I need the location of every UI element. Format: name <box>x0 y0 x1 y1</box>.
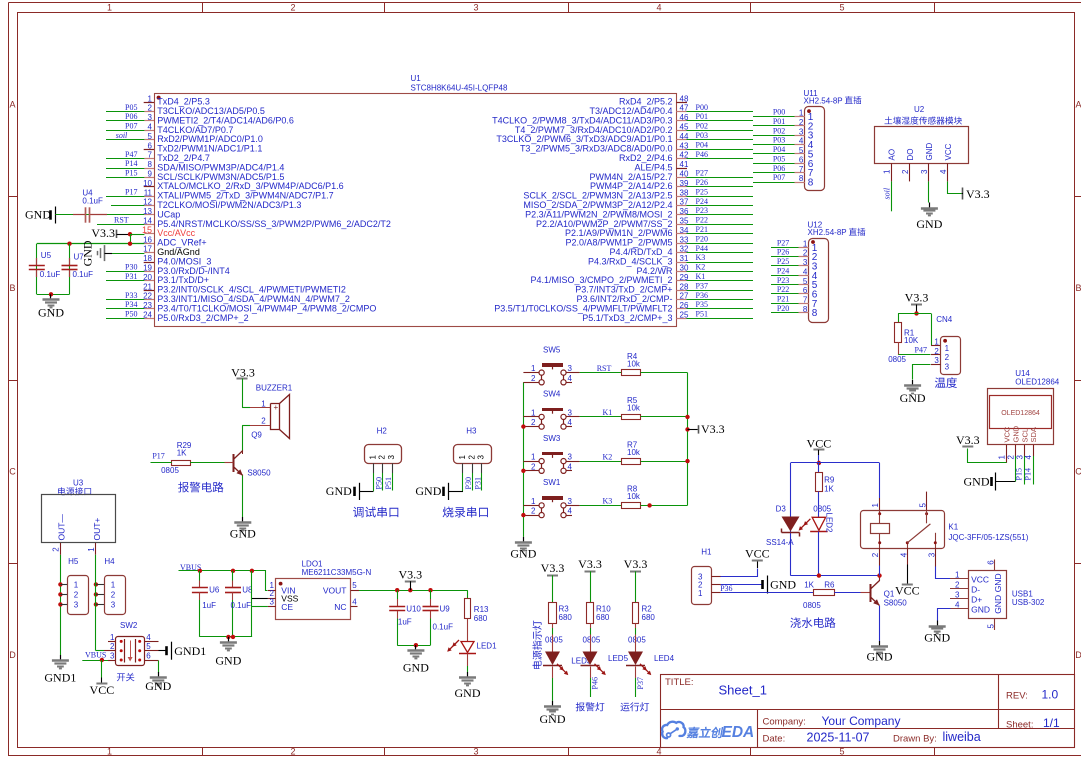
svg-text:GND: GND <box>900 391 926 405</box>
svg-text:9: 9 <box>148 170 153 179</box>
svg-text:4: 4 <box>568 374 573 383</box>
svg-text:23: 23 <box>143 301 152 310</box>
svg-text:2: 2 <box>871 552 880 557</box>
svg-text:8: 8 <box>799 174 804 183</box>
svg-text:V3.3: V3.3 <box>398 567 422 581</box>
svg-text:P50: P50 <box>125 310 137 319</box>
svg-text:GND: GND <box>510 547 536 561</box>
svg-text:OUT+: OUT+ <box>92 518 102 541</box>
svg-text:1K: 1K <box>177 449 187 458</box>
svg-text:P15: P15 <box>1015 468 1024 480</box>
svg-text:soil: soil <box>883 187 892 199</box>
svg-text:P47: P47 <box>125 150 137 159</box>
svg-text:P24: P24 <box>696 197 708 206</box>
svg-text:A: A <box>1075 100 1081 110</box>
svg-text:2: 2 <box>148 104 153 113</box>
svg-text:4: 4 <box>568 507 573 516</box>
svg-text:3: 3 <box>568 453 573 462</box>
svg-text:1: 1 <box>111 580 116 589</box>
svg-text:0805: 0805 <box>583 635 601 644</box>
svg-text:P46: P46 <box>696 150 708 159</box>
svg-text:1uF: 1uF <box>202 601 216 610</box>
svg-text:P03: P03 <box>696 131 708 140</box>
svg-text:2: 2 <box>945 353 950 362</box>
svg-text:41: 41 <box>680 160 689 169</box>
svg-text:P31: P31 <box>125 272 137 281</box>
svg-text:680: 680 <box>559 613 573 622</box>
svg-text:3: 3 <box>934 356 939 365</box>
svg-text:D+: D+ <box>971 594 982 604</box>
svg-text:2: 2 <box>290 3 295 13</box>
svg-text:5: 5 <box>987 624 996 629</box>
svg-text:GND: GND <box>993 595 1003 614</box>
svg-text:GND: GND <box>916 217 942 231</box>
svg-text:0.1uF: 0.1uF <box>231 601 252 610</box>
svg-text:0805: 0805 <box>545 635 563 644</box>
svg-text:P33: P33 <box>125 291 137 300</box>
svg-text:P15: P15 <box>125 169 137 178</box>
svg-text:U5: U5 <box>41 251 52 260</box>
svg-text:V3.3: V3.3 <box>966 187 990 201</box>
svg-text:GND: GND <box>25 207 51 221</box>
svg-text:OLED12864: OLED12864 <box>1001 410 1040 417</box>
svg-text:K3: K3 <box>603 497 613 506</box>
svg-text:H2: H2 <box>377 427 388 436</box>
svg-text:K2: K2 <box>696 263 706 272</box>
svg-text:1: 1 <box>883 169 892 174</box>
svg-text:1: 1 <box>368 455 377 460</box>
svg-text:STC8H8K64U-45I-LQFP48: STC8H8K64U-45I-LQFP48 <box>411 84 508 93</box>
svg-text:6: 6 <box>987 560 996 565</box>
svg-text:P36: P36 <box>696 291 708 300</box>
svg-text:P06: P06 <box>125 112 137 121</box>
svg-text:3: 3 <box>568 408 573 417</box>
svg-text:GND: GND <box>38 305 64 319</box>
svg-text:JQC-3FF/05-1ZS(551): JQC-3FF/05-1ZS(551) <box>948 533 1028 542</box>
svg-text:P06: P06 <box>773 164 785 173</box>
svg-text:2: 2 <box>1006 455 1015 460</box>
svg-text:P02: P02 <box>773 126 785 135</box>
svg-text:REV:: REV: <box>1006 690 1028 701</box>
svg-text:P02: P02 <box>696 122 708 131</box>
svg-text:P30: P30 <box>125 263 137 272</box>
svg-text:1: 1 <box>458 455 467 460</box>
svg-text:2: 2 <box>531 374 536 383</box>
svg-text:K2: K2 <box>603 452 613 461</box>
svg-text:3: 3 <box>270 597 275 606</box>
svg-text:22: 22 <box>143 292 152 301</box>
svg-text:2: 2 <box>531 418 536 427</box>
svg-text:RST: RST <box>597 364 612 373</box>
svg-text:3: 3 <box>920 169 929 174</box>
svg-text:V3.3: V3.3 <box>956 433 980 447</box>
svg-text:U2: U2 <box>914 105 925 114</box>
svg-text:10k: 10k <box>627 404 641 413</box>
svg-text:21: 21 <box>143 282 152 291</box>
svg-text:SW5: SW5 <box>543 345 561 354</box>
svg-text:3: 3 <box>568 364 573 373</box>
svg-text:P37: P37 <box>696 281 708 290</box>
svg-text:GND: GND <box>770 578 796 592</box>
svg-text:1uF: 1uF <box>398 618 412 627</box>
svg-text:2: 2 <box>51 547 60 552</box>
svg-text:3: 3 <box>148 113 153 122</box>
svg-text:P23: P23 <box>777 276 789 285</box>
svg-text:GND: GND <box>924 631 950 645</box>
svg-text:10: 10 <box>143 179 152 188</box>
svg-text:BUZZER1: BUZZER1 <box>256 384 293 393</box>
svg-text:2: 2 <box>110 642 115 651</box>
svg-text:K1: K1 <box>948 523 958 532</box>
svg-text:6: 6 <box>148 141 153 150</box>
svg-text:P35: P35 <box>696 300 708 309</box>
svg-text:P21: P21 <box>696 225 708 234</box>
svg-text:5: 5 <box>839 3 844 13</box>
svg-text:U1: U1 <box>411 74 422 83</box>
svg-text:3: 3 <box>945 362 950 371</box>
svg-text:OUT—: OUT— <box>56 514 66 541</box>
svg-text:VOUT: VOUT <box>323 585 347 595</box>
svg-text:P50: P50 <box>375 477 384 489</box>
svg-text:16: 16 <box>143 235 152 244</box>
svg-text:19: 19 <box>143 264 152 273</box>
svg-text:8: 8 <box>812 308 818 319</box>
svg-text:1: 1 <box>107 3 112 13</box>
svg-text:VCC: VCC <box>895 584 920 598</box>
svg-text:P5.0/RxD3_2/CMP+_2: P5.0/RxD3_2/CMP+_2 <box>157 313 248 323</box>
svg-text:P5.1/TxD3_2/CMP+_3: P5.1/TxD3_2/CMP+_3 <box>582 313 672 323</box>
svg-text:GND: GND <box>145 679 171 693</box>
svg-text:R9: R9 <box>824 475 835 484</box>
svg-text:Date:: Date: <box>763 733 786 744</box>
svg-text:680: 680 <box>642 613 656 622</box>
svg-text:DO: DO <box>906 149 915 161</box>
svg-text:31: 31 <box>680 254 689 263</box>
svg-text:R6: R6 <box>824 581 835 590</box>
svg-text:GND: GND <box>867 650 893 664</box>
svg-text:1: 1 <box>871 503 880 508</box>
svg-text:11: 11 <box>144 188 153 197</box>
svg-text:P00: P00 <box>696 103 708 112</box>
svg-text:10K: 10K <box>904 336 919 345</box>
svg-text:0805: 0805 <box>628 635 646 644</box>
svg-text:4: 4 <box>568 462 573 471</box>
svg-text:P36: P36 <box>720 584 732 593</box>
svg-text:S8050: S8050 <box>884 598 908 607</box>
svg-text:8: 8 <box>808 178 814 189</box>
svg-text:VCC: VCC <box>745 547 770 561</box>
svg-text:S8050: S8050 <box>247 468 271 477</box>
svg-text:Drawn By:: Drawn By: <box>893 733 937 744</box>
svg-text:+: + <box>273 403 278 412</box>
svg-text:5: 5 <box>919 503 928 508</box>
svg-text:B: B <box>1075 283 1081 293</box>
svg-text:P17: P17 <box>152 452 164 461</box>
svg-text:0805: 0805 <box>803 601 821 610</box>
svg-text:0.1uF: 0.1uF <box>73 270 94 279</box>
svg-text:2: 2 <box>467 455 476 460</box>
svg-text:0.1uF: 0.1uF <box>40 270 61 279</box>
svg-text:RST: RST <box>114 216 129 225</box>
svg-text:USB1: USB1 <box>1012 589 1033 598</box>
svg-text:GND1: GND1 <box>174 644 206 658</box>
svg-text:8: 8 <box>148 160 153 169</box>
svg-text:Company:: Company: <box>763 716 806 727</box>
svg-text:K1: K1 <box>603 408 613 417</box>
svg-text:GND: GND <box>925 143 934 161</box>
svg-text:1K: 1K <box>804 581 814 590</box>
svg-text:soil: soil <box>116 131 128 140</box>
svg-text:3: 3 <box>74 600 79 609</box>
svg-text:13: 13 <box>143 207 152 216</box>
svg-text:P20: P20 <box>696 234 708 243</box>
svg-text:1: 1 <box>531 364 536 373</box>
svg-text:P26: P26 <box>777 248 789 257</box>
svg-text:D-: D- <box>971 584 980 594</box>
svg-text:5: 5 <box>146 642 151 651</box>
svg-text:28: 28 <box>680 282 689 291</box>
svg-text:2: 2 <box>901 169 910 174</box>
svg-text:D: D <box>1075 650 1081 660</box>
svg-text:4: 4 <box>352 597 357 606</box>
svg-text:D: D <box>9 650 16 660</box>
svg-text:4: 4 <box>939 169 948 174</box>
svg-text:15: 15 <box>142 225 152 235</box>
svg-text:1: 1 <box>945 344 950 353</box>
svg-text:VCC: VCC <box>971 574 989 584</box>
svg-text:12: 12 <box>143 198 152 207</box>
svg-text:4: 4 <box>568 418 573 427</box>
svg-text:SW2: SW2 <box>120 621 138 630</box>
svg-text:0.1uF: 0.1uF <box>82 196 103 205</box>
svg-text:1K: 1K <box>824 485 834 494</box>
svg-text:SW4: SW4 <box>543 390 561 399</box>
svg-text:1: 1 <box>74 580 79 589</box>
svg-text:VCC: VCC <box>90 683 115 697</box>
svg-text:ME6211C33M5G-N: ME6211C33M5G-N <box>302 568 372 577</box>
svg-text:liweiba: liweiba <box>943 730 981 744</box>
svg-text:NC: NC <box>334 602 346 612</box>
svg-text:17: 17 <box>143 245 152 254</box>
svg-text:GND: GND <box>215 654 241 668</box>
svg-text:4: 4 <box>148 123 153 132</box>
svg-text:1: 1 <box>107 747 112 757</box>
svg-text:P14: P14 <box>1024 468 1033 480</box>
svg-text:P34: P34 <box>125 300 137 309</box>
svg-text:LED5: LED5 <box>608 654 629 663</box>
svg-text:K3: K3 <box>696 253 706 262</box>
svg-text:1: 1 <box>531 408 536 417</box>
svg-text:SS14-A: SS14-A <box>766 538 794 547</box>
svg-text:SW3: SW3 <box>543 434 561 443</box>
svg-text:P23: P23 <box>696 206 708 215</box>
svg-text:1: 1 <box>87 547 96 552</box>
svg-text:2: 2 <box>531 462 536 471</box>
svg-text:H3: H3 <box>466 427 477 436</box>
svg-text:U3: U3 <box>73 479 84 488</box>
svg-text:SW1: SW1 <box>543 478 561 487</box>
svg-text:GND: GND <box>971 604 990 614</box>
svg-text:4: 4 <box>955 601 960 610</box>
svg-text:1/1: 1/1 <box>1043 716 1060 730</box>
svg-text:1: 1 <box>148 94 153 103</box>
svg-text:U7: U7 <box>74 253 85 262</box>
svg-text:4: 4 <box>1024 455 1033 460</box>
svg-text:GND: GND <box>403 660 429 674</box>
svg-text:P05: P05 <box>125 103 137 112</box>
svg-text:GND: GND <box>455 686 481 700</box>
svg-text:0805: 0805 <box>161 466 179 475</box>
svg-text:680: 680 <box>596 613 610 622</box>
svg-text:R13: R13 <box>474 605 489 614</box>
svg-text:Q1: Q1 <box>884 590 895 599</box>
svg-text:10k: 10k <box>627 359 641 368</box>
svg-text:Sheet_1: Sheet_1 <box>719 683 767 698</box>
svg-text:U9: U9 <box>440 605 451 614</box>
svg-text:H4: H4 <box>104 557 115 566</box>
svg-text:P22: P22 <box>696 216 708 225</box>
svg-text:P51: P51 <box>384 477 393 489</box>
svg-text:P27: P27 <box>696 169 708 178</box>
svg-text:20: 20 <box>143 273 152 282</box>
svg-text:3: 3 <box>387 455 396 460</box>
svg-text:V3.3: V3.3 <box>905 291 929 305</box>
svg-text:V3.3: V3.3 <box>624 557 648 571</box>
svg-text:4: 4 <box>656 3 661 13</box>
svg-text:10k: 10k <box>627 492 641 501</box>
svg-text:3: 3 <box>568 497 573 506</box>
svg-text:5: 5 <box>148 132 153 141</box>
svg-text:CN4: CN4 <box>936 315 953 324</box>
svg-text:P05: P05 <box>773 154 785 163</box>
svg-text:P44: P44 <box>696 244 708 253</box>
svg-text:GND: GND <box>964 475 990 489</box>
svg-text:A: A <box>9 100 15 110</box>
svg-text:XH2.54-8P: XH2.54-8P <box>808 228 847 237</box>
svg-text:V3.3: V3.3 <box>91 226 115 240</box>
svg-text:LED1: LED1 <box>477 641 498 650</box>
svg-text:2: 2 <box>111 590 116 599</box>
svg-text:EDA: EDA <box>722 724 755 741</box>
svg-text:3: 3 <box>111 600 116 609</box>
svg-text:VCC: VCC <box>807 436 832 450</box>
svg-text:3: 3 <box>955 591 960 600</box>
svg-text:P04: P04 <box>696 140 708 149</box>
svg-text:V3.3: V3.3 <box>701 422 725 436</box>
svg-text:24: 24 <box>143 311 152 320</box>
svg-text:3: 3 <box>110 651 115 660</box>
svg-text:P01: P01 <box>773 117 785 126</box>
svg-text:P00: P00 <box>773 108 785 117</box>
svg-text:GND: GND <box>1011 425 1020 442</box>
svg-text:D3: D3 <box>776 505 787 514</box>
svg-text:P31: P31 <box>473 477 482 489</box>
svg-text:U6: U6 <box>209 586 220 595</box>
svg-text:GND: GND <box>415 484 441 498</box>
svg-text:GND: GND <box>326 484 352 498</box>
svg-text:P46: P46 <box>590 677 599 689</box>
svg-text:48: 48 <box>680 94 689 103</box>
svg-text:5: 5 <box>352 581 357 590</box>
svg-text:P26: P26 <box>696 178 708 187</box>
svg-text:P14: P14 <box>125 159 137 168</box>
svg-text:10k: 10k <box>627 448 641 457</box>
svg-text:OLED12864: OLED12864 <box>1015 377 1060 386</box>
svg-text:7: 7 <box>148 151 153 160</box>
svg-text:CE: CE <box>281 602 293 612</box>
svg-text:P17: P17 <box>125 187 137 196</box>
svg-text:P47: P47 <box>915 345 927 354</box>
svg-text:VCC: VCC <box>1003 426 1012 442</box>
svg-text:U10: U10 <box>406 605 421 614</box>
svg-text:1.0: 1.0 <box>1042 687 1059 701</box>
svg-text:GND: GND <box>993 573 1003 592</box>
svg-text:P25: P25 <box>696 187 708 196</box>
svg-text:P07: P07 <box>773 173 785 182</box>
svg-text:1: 1 <box>261 399 266 408</box>
svg-text:0805: 0805 <box>888 355 906 364</box>
svg-text:2025-11-07: 2025-11-07 <box>807 730 870 744</box>
svg-text:AO: AO <box>888 149 897 161</box>
svg-text:GND: GND <box>540 712 566 726</box>
svg-text:P04: P04 <box>773 145 785 154</box>
svg-text:1: 1 <box>934 338 939 347</box>
svg-text:1: 1 <box>998 455 1007 460</box>
svg-text:VCC: VCC <box>944 143 953 160</box>
svg-text:P21: P21 <box>777 294 789 303</box>
svg-text:P07: P07 <box>125 122 137 131</box>
svg-text:3: 3 <box>473 747 478 757</box>
svg-text:3: 3 <box>1015 454 1024 459</box>
svg-text:B: B <box>9 283 15 293</box>
svg-text:V3.3: V3.3 <box>578 557 602 571</box>
svg-text:V3.3: V3.3 <box>231 366 255 380</box>
svg-text:SDA: SDA <box>1029 427 1038 442</box>
svg-text:Your Company: Your Company <box>822 714 901 728</box>
svg-text:VBUS: VBUS <box>85 651 106 660</box>
svg-text:Sheet:: Sheet: <box>1006 720 1033 731</box>
svg-text:6: 6 <box>146 651 151 660</box>
svg-text:H1: H1 <box>701 548 712 557</box>
svg-text:2: 2 <box>531 507 536 516</box>
svg-text:LED2: LED2 <box>824 513 833 534</box>
svg-text:P37: P37 <box>636 677 645 689</box>
svg-text:4: 4 <box>146 633 151 642</box>
svg-text:3: 3 <box>473 3 478 13</box>
svg-text:XH2.54-8P: XH2.54-8P <box>804 96 843 105</box>
svg-text:K1: K1 <box>696 272 706 281</box>
svg-text:2: 2 <box>74 590 79 599</box>
svg-text:P22: P22 <box>777 285 789 294</box>
svg-text:V3.3: V3.3 <box>541 561 565 575</box>
svg-text:USB-302: USB-302 <box>1012 598 1045 607</box>
svg-text:2: 2 <box>955 581 960 590</box>
svg-text:2: 2 <box>290 747 295 757</box>
svg-text:SCL: SCL <box>1020 428 1029 443</box>
svg-text:2: 2 <box>261 417 266 426</box>
svg-text:TITLE:: TITLE: <box>665 677 694 688</box>
svg-text:P51: P51 <box>696 310 708 319</box>
svg-text:C: C <box>9 467 16 477</box>
svg-text:H5: H5 <box>68 557 79 566</box>
svg-text:1: 1 <box>110 633 115 642</box>
svg-text:2: 2 <box>378 455 387 460</box>
svg-text:3: 3 <box>477 455 486 460</box>
svg-text:GND1: GND1 <box>44 671 76 685</box>
svg-text:1: 1 <box>531 497 536 506</box>
svg-text:P03: P03 <box>773 136 785 145</box>
svg-text:Q9: Q9 <box>251 430 262 439</box>
